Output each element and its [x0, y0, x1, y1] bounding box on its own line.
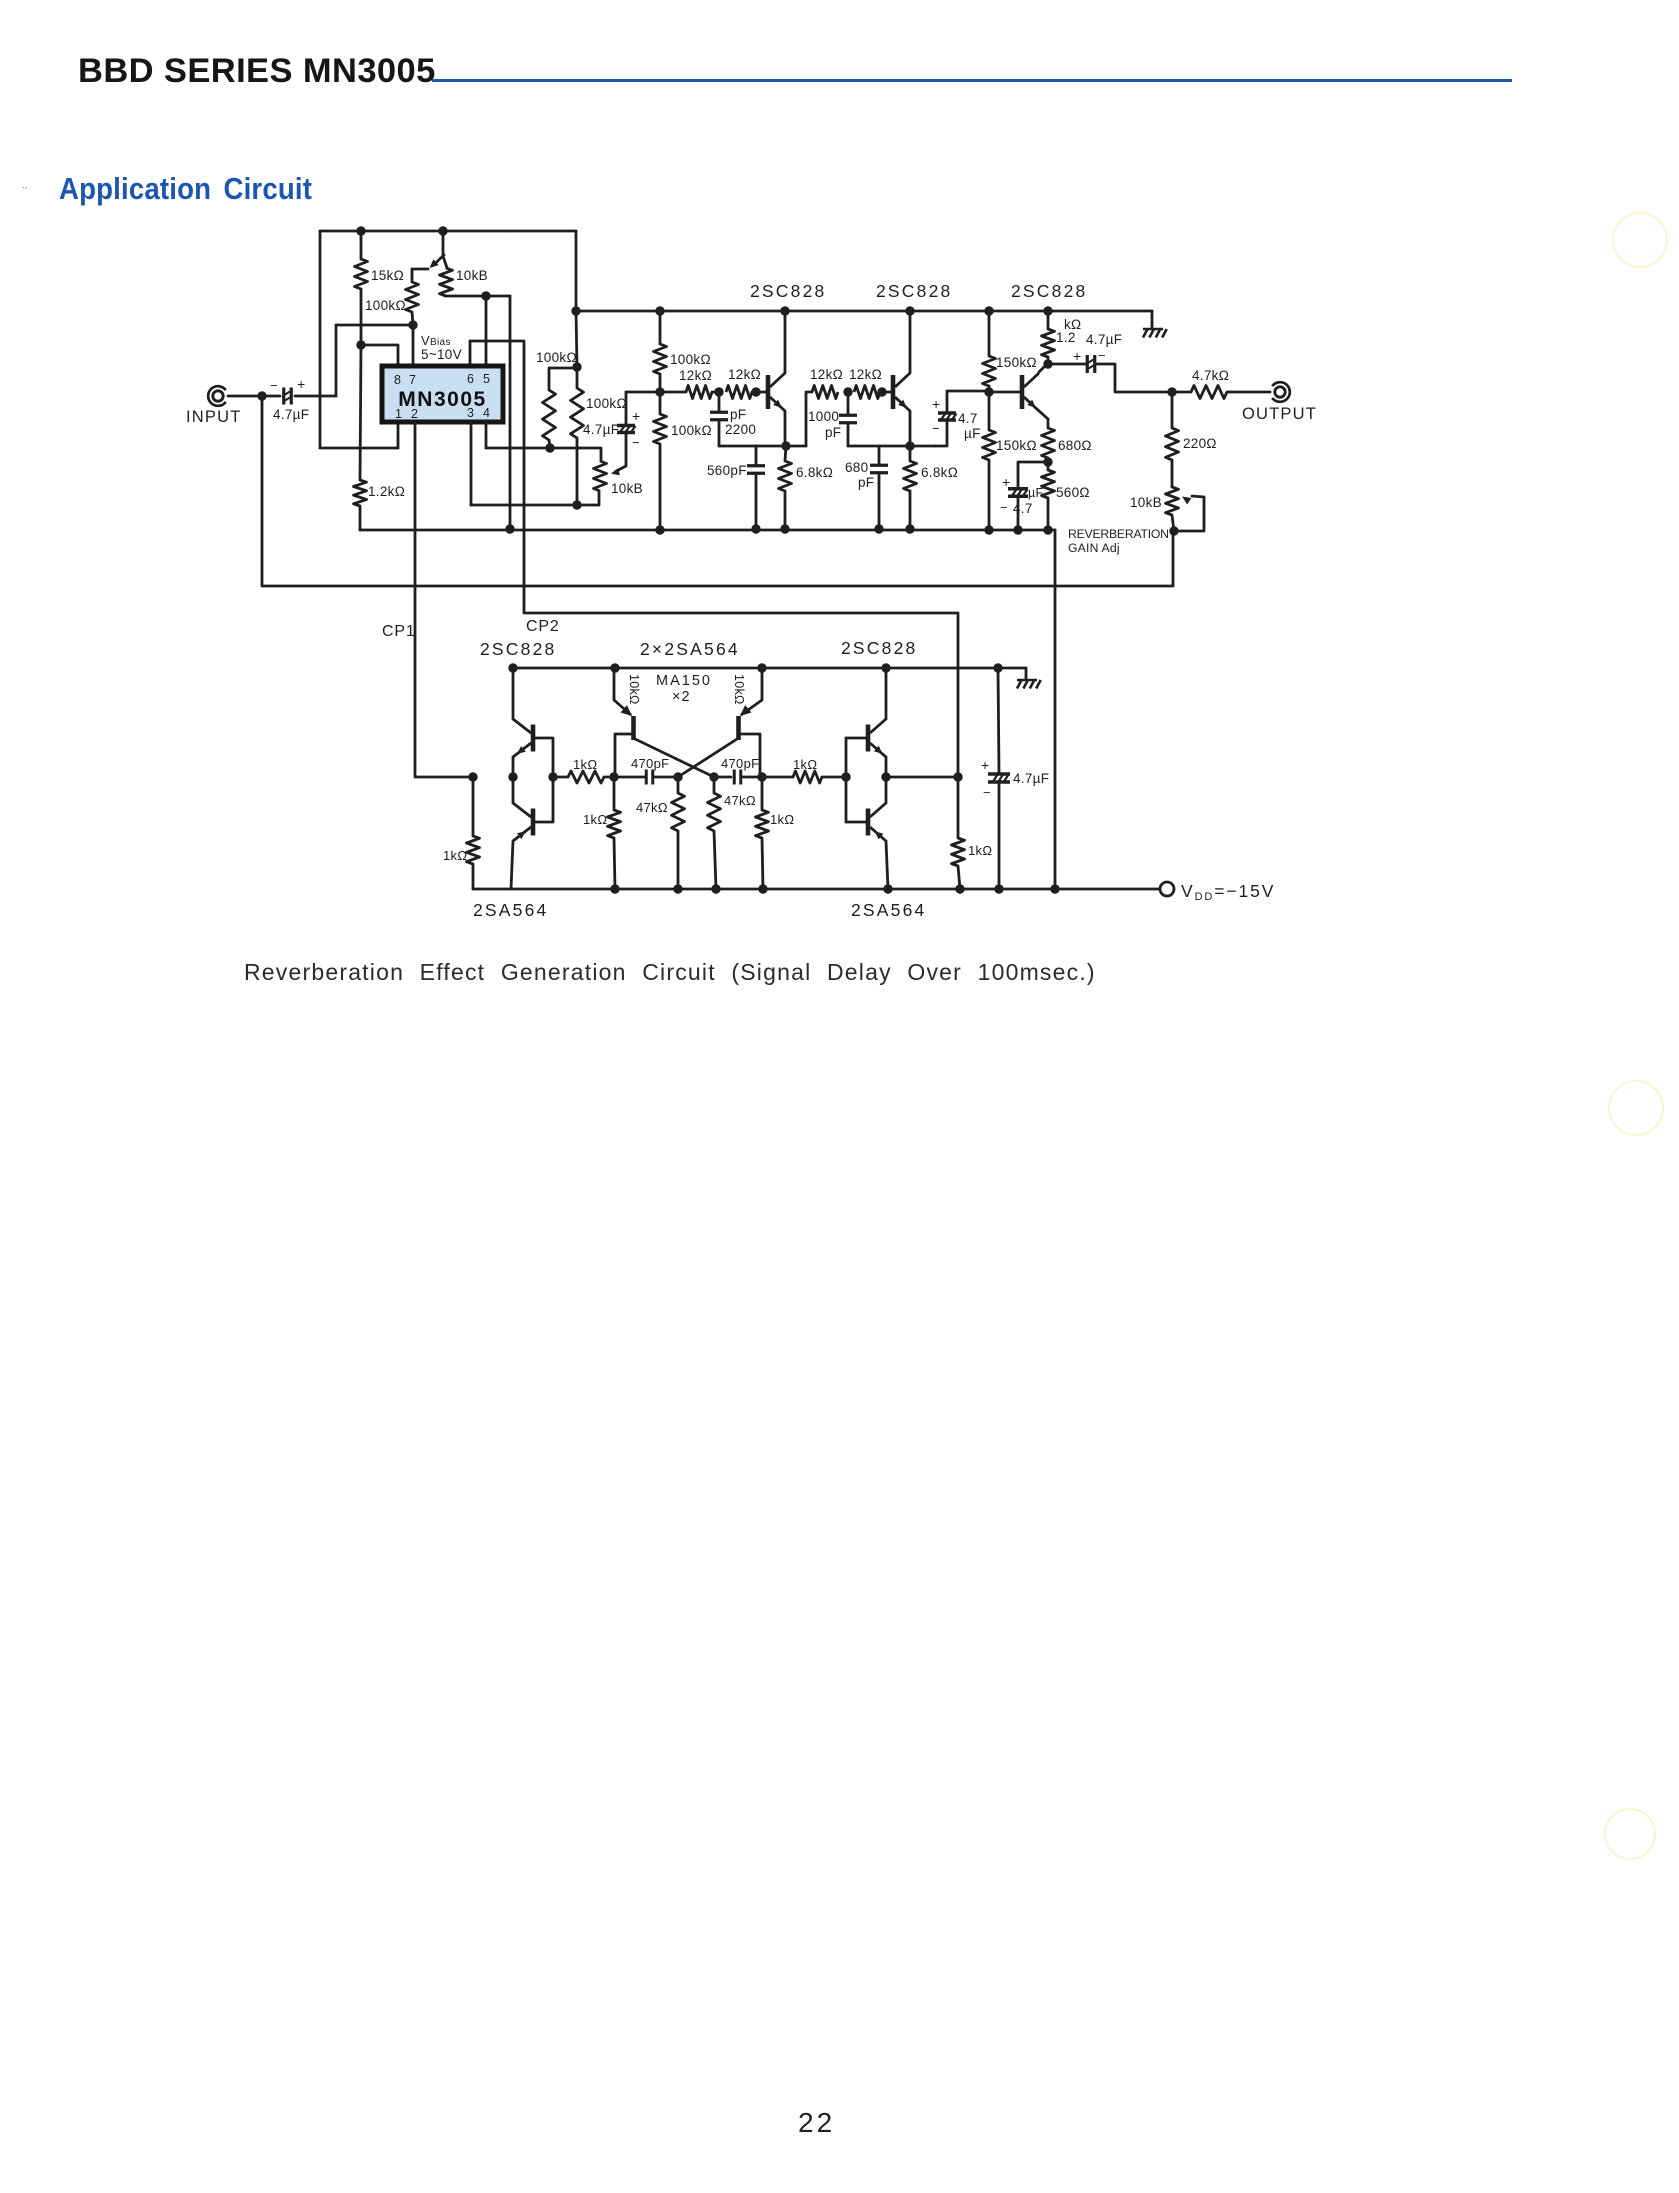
resistor R6 100k [571, 388, 584, 438]
resistor R29 47k [708, 793, 721, 831]
resistor R11 6.8k [779, 461, 792, 491]
svg-text:5~10V: 5~10V [421, 347, 462, 362]
wire R11 top lead [785, 446, 786, 461]
wire feedback long [262, 396, 1173, 586]
arrow VR3 wiper [1182, 497, 1191, 505]
resistor R5 100k [543, 390, 556, 440]
wire amp supply rail [576, 310, 1152, 313]
wire C12 top lead [998, 668, 999, 773]
wire stage1 to stage2 riser [806, 392, 812, 446]
svg-text:1.2: 1.2 [1056, 330, 1076, 345]
wire R14 leads [909, 446, 912, 461]
wire amp1 node to R9 [660, 391, 686, 394]
resistor R28 47k [672, 793, 685, 831]
node top rail at R1 [356, 226, 365, 235]
svg-text:12kΩ: 12kΩ [849, 367, 882, 382]
svg-text:12kΩ: 12kΩ [728, 367, 761, 382]
svg-text:×2: ×2 [672, 689, 691, 705]
svg-text:560Ω: 560Ω [1056, 485, 1090, 500]
svg-text:560pF: 560pF [707, 463, 747, 478]
node ground rail at Q6 [610, 663, 619, 672]
wire VR1 wiper diagonal [434, 255, 444, 265]
svg-text:6.8kΩ: 6.8kΩ [921, 465, 958, 480]
wire Q1 collector [784, 311, 787, 373]
wire Q8 collector [885, 668, 888, 719]
node amp rail left [571, 306, 580, 315]
svg-text:µF: µF [1028, 486, 1044, 500]
node VR3 bottom [1169, 526, 1178, 535]
capacitor C4 560pF [747, 466, 765, 474]
transistor Q4 2SC828 [513, 719, 533, 757]
wire VR1 bottom drop to supply rail [509, 296, 512, 529]
wire x576 to branch [576, 311, 577, 367]
resistor R8 100k amp1 lower [654, 414, 667, 444]
node amp rail at Q1 [780, 306, 789, 315]
svg-text:µF: µF [964, 426, 981, 441]
svg-text:1kΩ: 1kΩ [583, 812, 607, 827]
svg-text:1.2kΩ: 1.2kΩ [368, 484, 405, 499]
wire x576 column [575, 231, 578, 311]
node ground rail at Q7 [757, 663, 766, 672]
capacitor C12 4.7uF bypass [988, 774, 1010, 782]
node base tie right [841, 772, 850, 781]
scan artifact punch hole 3 [1604, 1808, 1656, 1860]
capacitor C1 4.7uF input coupling [284, 388, 292, 405]
svg-text:GAIN Adj: GAIN Adj [1068, 541, 1120, 555]
svg-text:2: 2 [411, 407, 418, 421]
wire VDD rail [473, 888, 1159, 891]
wire C2 column upper [625, 392, 628, 424]
node stage1 emitter [781, 441, 790, 450]
wire pin5 stub [485, 296, 488, 366]
wire R17 bottom lead [1047, 357, 1050, 364]
resistor R15 150k [983, 356, 996, 386]
svg-text:INPUT: INPUT [186, 408, 242, 426]
wire R25 bottom lead [614, 838, 615, 889]
wire Q5 collector [512, 777, 515, 803]
wire Q4 emitter [512, 757, 515, 777]
wire C4 top lead [755, 446, 758, 466]
wire R29 top lead [713, 777, 716, 793]
transistor Q8 2SC828 [868, 719, 886, 757]
svg-text:4.7µF: 4.7µF [1086, 332, 1122, 347]
wire R26 emitter feed [613, 668, 616, 700]
svg-text:6.8kΩ: 6.8kΩ [796, 465, 833, 480]
wire pin4 stub [485, 422, 488, 448]
wire VR3 wiper loop [1192, 496, 1204, 497]
node Q2 base [877, 387, 886, 396]
svg-text:15kΩ: 15kΩ [371, 268, 404, 283]
wire VR3 bottom lead [1172, 515, 1174, 531]
transistor Q7 emitter [741, 700, 762, 715]
svg-text:1kΩ: 1kΩ [793, 757, 817, 772]
svg-text:2SC828: 2SC828 [1011, 281, 1087, 301]
wire C2 to wiper [616, 434, 627, 472]
svg-text:470pF: 470pF [721, 756, 759, 771]
svg-text:−: − [1000, 500, 1008, 515]
svg-text:pF: pF [825, 425, 841, 440]
wire R8 bottom lead [659, 444, 662, 530]
svg-text:10kΩ: 10kΩ [627, 674, 641, 705]
resistor R22 1.2k [354, 480, 367, 506]
svg-text:1kΩ: 1kΩ [770, 812, 794, 827]
wire vbias horizontal [336, 324, 413, 327]
wire VR1 wiper feed [442, 231, 445, 256]
transistor Q6 2SA564 bar [631, 716, 636, 740]
arrow VR1 wiper [430, 259, 439, 268]
wire R7 top lead [659, 311, 662, 344]
wire Q9 emitter [886, 841, 888, 889]
wire R23 bottom lead [472, 864, 475, 889]
wire R28 top lead [677, 777, 680, 793]
svg-text:680Ω: 680Ω [1058, 438, 1092, 453]
wire C11 to right base [741, 776, 762, 779]
node osc right base [757, 772, 766, 781]
svg-text:4: 4 [483, 406, 490, 420]
node VDD rail at Q9 [883, 884, 892, 893]
svg-text:1000: 1000 [808, 409, 839, 424]
node CP2 join [953, 772, 962, 781]
transistor Q1 2SC828 [768, 373, 785, 411]
node VDD rail at R28 [673, 884, 682, 893]
resistor R13 12k [854, 386, 880, 399]
scan artifact punch hole 2 [1608, 1080, 1664, 1136]
svg-text:7: 7 [409, 373, 416, 387]
wire R7 bottom lead [659, 374, 662, 392]
svg-text:2SA564: 2SA564 [473, 900, 548, 920]
transistor Q2 2SC828 [893, 373, 910, 411]
node amp rail at Q2 [905, 306, 914, 315]
svg-text:1kΩ: 1kΩ [443, 848, 467, 863]
svg-text:220Ω: 220Ω [1183, 436, 1217, 451]
node supply rail at C6 [874, 524, 883, 533]
wire R11 bottom lead [784, 491, 787, 529]
wire R30 top lead [761, 777, 764, 810]
resistor R21 560 [1042, 470, 1055, 498]
wire R18 to output jack [1227, 391, 1270, 394]
svg-text:4.7µF: 4.7µF [583, 422, 619, 437]
wire lower ground rail [513, 667, 1026, 670]
svg-text:2200: 2200 [725, 422, 756, 437]
node ground rail at C12 [993, 663, 1002, 672]
wire R9 to C3 node [712, 391, 719, 394]
transistor Q9 2SA564 [868, 803, 886, 841]
wire Q7 base link [741, 734, 760, 777]
svg-text:1kΩ: 1kΩ [968, 843, 992, 858]
svg-text:−: − [1098, 348, 1106, 363]
wire R16 top lead [988, 392, 991, 430]
svg-text:10kΩ: 10kΩ [732, 674, 746, 705]
wire C9 branch [1018, 462, 1048, 488]
transistor Q6 emitter [614, 700, 631, 715]
node CP2 out [881, 772, 890, 781]
svg-text:3: 3 [467, 406, 474, 420]
wire R19 bottom lead [1171, 460, 1174, 487]
capacitor C11 470pF [734, 770, 741, 785]
wire Q8 base stub [846, 737, 866, 740]
node amp rail at R15 [984, 306, 993, 315]
svg-text:1: 1 [395, 407, 402, 421]
wire output node to R18 [1172, 391, 1191, 394]
ground lower [1017, 680, 1041, 689]
wire R6 bottom lead [576, 438, 579, 505]
wire CP1 from pin2 [415, 422, 473, 777]
wire pin6 stub [469, 341, 472, 366]
svg-text:2×2SA564: 2×2SA564 [640, 639, 740, 659]
wire left base to C10 [614, 776, 645, 779]
svg-text:4.7: 4.7 [958, 411, 978, 426]
wire Q9 collector [885, 777, 888, 803]
wire H1 pin4 to pot top [486, 448, 601, 461]
node amp1 input [655, 387, 664, 396]
wire Q9 base stub [846, 821, 866, 824]
node output junction [1167, 387, 1176, 396]
node input junction [257, 391, 266, 400]
resistor R1 15k [355, 259, 368, 289]
node osc left base [609, 772, 618, 781]
header rule [432, 79, 1512, 82]
node Q3 base [984, 387, 993, 396]
svg-text:+: + [932, 396, 940, 412]
wire branch to R5 [549, 368, 577, 390]
node base tie left [548, 772, 557, 781]
wire rail to ground [1151, 311, 1154, 328]
svg-text:2SC828: 2SC828 [750, 281, 826, 301]
wire Q3 collector diag link [1039, 365, 1046, 372]
wire input jack to node [228, 395, 262, 398]
wire supply rail drop to VDD [1054, 530, 1057, 889]
ground upper [1143, 329, 1167, 338]
wire C5 bottom lead [847, 423, 850, 446]
node pin5 takeoff [481, 291, 490, 300]
capacitor C6 680pF [870, 465, 888, 473]
node vbias junction [408, 320, 417, 329]
wire VR3 loop right [1174, 497, 1204, 531]
svg-text:REVERBERATION: REVERBERATION [1068, 527, 1169, 541]
wire C7 riser [935, 421, 947, 446]
capacitor C3 2200pF [710, 412, 728, 420]
node VDD rail at R30 [758, 884, 767, 893]
svg-text:12kΩ: 12kΩ [679, 368, 712, 383]
svg-text:47kΩ: 47kΩ [636, 800, 668, 815]
resistor R19 220 [1166, 428, 1179, 460]
svg-text:+: + [1002, 474, 1010, 490]
svg-text:CP1: CP1 [382, 623, 416, 640]
svg-text:+: + [1073, 348, 1081, 364]
wire pin1 run [320, 447, 398, 450]
wire lower ground stub [1025, 668, 1028, 679]
node x577 branch [572, 362, 581, 371]
node supply rail at R8 [655, 525, 664, 534]
svg-text:−: − [270, 378, 278, 393]
resistor R23 1k [467, 836, 480, 864]
capacitor C5 1000pF [839, 415, 857, 423]
svg-text:−: − [632, 435, 640, 450]
wire R23 top lead [472, 777, 475, 836]
transistor Q5 2SA564 [513, 803, 533, 841]
svg-text:4.7kΩ: 4.7kΩ [1192, 368, 1229, 383]
node supply rail at x510 [505, 524, 514, 533]
wire R16 bottom lead [988, 460, 991, 530]
resistor R12 12k [812, 386, 838, 399]
node VDD rail at C12 [994, 884, 1003, 893]
wire R19 top lead [1171, 392, 1174, 428]
node amp rail at R7 [655, 306, 664, 315]
wire node to C11 [714, 776, 731, 779]
node osc left coll [673, 772, 682, 781]
wire Q4 collector [512, 668, 515, 719]
svg-text:5: 5 [483, 372, 490, 386]
svg-text:150kΩ: 150kΩ [996, 355, 1037, 370]
resistor R17 1.2k [1042, 329, 1055, 357]
output jack connector [1272, 382, 1290, 402]
node stage2 emitter [905, 441, 914, 450]
wire C5 top lead [847, 392, 850, 414]
resistor R32 1k [952, 838, 965, 866]
wire R1 bottom lead [360, 289, 363, 345]
capacitor C2 4.7uF wiper coupling [617, 426, 635, 433]
capacitor C10 470pF [646, 770, 653, 785]
node Q3 emitter junction [1043, 457, 1052, 466]
wire R2 top lead [411, 269, 414, 282]
resistor R20 680 [1042, 428, 1055, 458]
caption [244, 959, 1096, 986]
node amp rail at R17 [1043, 306, 1052, 315]
wire R31 to base tie [822, 776, 846, 779]
svg-text:VBias: VBias [421, 333, 451, 348]
wire R30 bottom lead [762, 838, 763, 889]
svg-text:4.7µF: 4.7µF [1013, 771, 1049, 786]
svg-text:680: 680 [845, 460, 868, 475]
wire Q8 emitter [885, 757, 888, 777]
node y777 at R23 [468, 772, 477, 781]
wire VR1 bottom to pin5 column [445, 295, 510, 298]
wire Q3 collector to C8 [1048, 363, 1085, 366]
wire C3 bottom lead [718, 420, 721, 446]
svg-text:pF: pF [858, 475, 874, 490]
node VDD rail at R29 [711, 884, 720, 893]
wire R2 bottom lead [412, 312, 413, 325]
wire R32 bottom lead [958, 866, 960, 889]
wire Q5 emitter [511, 841, 513, 889]
svg-text:470pF: 470pF [631, 756, 669, 771]
svg-text:4.7: 4.7 [1013, 501, 1033, 516]
svg-text:2SC828: 2SC828 [841, 638, 917, 658]
svg-text:+: + [981, 757, 989, 773]
wire C10 to node [653, 776, 678, 779]
wire R21 top lead [1047, 462, 1050, 470]
wire R1 top lead [360, 231, 363, 259]
svg-text:2SC828: 2SC828 [480, 639, 556, 659]
node supply rail at C4 [751, 524, 760, 533]
wire R15 top lead [988, 311, 991, 356]
wire Q2 emitter [909, 411, 912, 446]
wire left column input bus [319, 231, 322, 448]
resistor R14 6.8k [904, 461, 917, 491]
wire C6 bottom lead [878, 473, 881, 529]
node ground rail at Q4 [508, 663, 517, 672]
wire base tie to R24 [553, 776, 568, 779]
wire Q1 emitter [784, 411, 787, 446]
resistor R9 12k [686, 386, 712, 399]
node top rail at VR1 [438, 226, 447, 235]
node C3 top [714, 387, 723, 396]
wire input node to C1 [262, 395, 280, 398]
wire Q2 collector [909, 311, 912, 373]
resistor R30 1k [756, 810, 769, 838]
potentiometer VR2 10kB output mix [594, 461, 607, 491]
svg-text:4.7µF: 4.7µF [273, 407, 309, 422]
resistor R18 4.7k [1191, 386, 1227, 399]
wire pin7 stub vbias [412, 325, 415, 366]
svg-text:47kΩ: 47kΩ [724, 793, 756, 808]
scan artifact speck [22, 186, 29, 191]
node VDD rail at x1055 [1050, 884, 1059, 893]
svg-text:12kΩ: 12kΩ [810, 367, 843, 382]
wire node to pin8 [361, 345, 398, 366]
capacitor C8 4.7uF output [1087, 355, 1095, 373]
wire CP2 node link [886, 776, 958, 779]
svg-text:1kΩ: 1kΩ [573, 757, 597, 772]
svg-text:+: + [297, 376, 305, 392]
wire R24 to node [604, 776, 614, 779]
svg-text:100kΩ: 100kΩ [536, 350, 577, 365]
header title BBD SERIES MN3005 [78, 52, 436, 91]
svg-text:100kΩ: 100kΩ [671, 423, 712, 438]
wire R14 bottom lead [909, 491, 912, 529]
wire R15 bottom lead [988, 386, 991, 392]
transistor Q7 2SA564 bar [736, 716, 741, 740]
wire R13 to Q2 base [880, 391, 891, 394]
wire R8 top lead [659, 392, 662, 414]
resistor R2 100k [406, 282, 419, 312]
svg-text:MA150: MA150 [656, 673, 712, 689]
scan artifact punch hole 1 [1612, 212, 1668, 268]
wire C3 top lead [718, 392, 721, 411]
svg-text:10kB: 10kB [456, 268, 488, 283]
wire Q3 base link [989, 391, 1020, 394]
wire CP2 from pin6 [470, 341, 958, 777]
svg-text:100kΩ: 100kΩ [586, 396, 627, 411]
node VDD rail at R32 [955, 884, 964, 893]
wire C7 to stage3 base [947, 391, 989, 412]
svg-text:150kΩ: 150kΩ [996, 438, 1037, 453]
wire R6 leads [576, 367, 579, 388]
wire R28 bottom lead [677, 831, 680, 889]
svg-text:6: 6 [467, 372, 474, 386]
node supply rail at C9 [1013, 525, 1022, 534]
transistor Q7 collector cross [678, 739, 737, 777]
resistor R31 1k [793, 771, 822, 783]
wire R22 bottom lead [359, 506, 362, 530]
wire R32 top lead [957, 777, 960, 838]
wire stage1 bottom link [719, 445, 806, 448]
node ground rail at Q8 [881, 663, 890, 672]
wire upper supply rail [360, 529, 1055, 532]
wire VR1 arrow tie to R2 top [412, 268, 428, 271]
wire pin1 stub [397, 422, 400, 448]
wire C1 to bias verticals [295, 395, 336, 398]
node Q3 collector [1043, 359, 1052, 368]
node H2 at R6 [572, 500, 581, 509]
wire stage2 bottom link [848, 445, 935, 448]
svg-text:10kB: 10kB [611, 481, 643, 496]
page number [798, 2107, 835, 2139]
node C5 top [843, 387, 852, 396]
potentiometer VR3 10kB gain [1166, 487, 1179, 515]
node Q1 base [751, 387, 760, 396]
wire amp1 node left to C2 [626, 391, 660, 394]
